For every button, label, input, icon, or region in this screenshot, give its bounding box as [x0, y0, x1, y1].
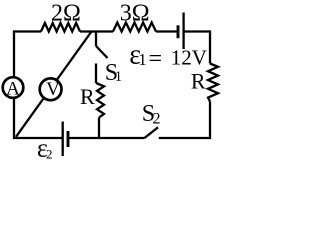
wire bottom-right segment: [159, 137, 210, 139]
resistor R4 middle R: [96, 83, 104, 118]
wire to battery E1: [156, 30, 178, 32]
svg-text:=: =: [149, 46, 163, 72]
wire bottom-left segment: [13, 137, 63, 139]
svg-text:12V: 12V: [171, 46, 207, 70]
wire S1 lower contact: [95, 64, 97, 84]
battery E2 short plate: [67, 131, 70, 147]
svg-text:1: 1: [138, 50, 147, 69]
wire battery E1 to top-right corner: [184, 30, 210, 32]
switch S1 blade: [96, 46, 108, 58]
battery E1 long plate: [182, 13, 184, 50]
wire voltmeter diagonal: [16, 32, 92, 137]
switch S1 top stub: [95, 32, 97, 47]
battery E1 short plate: [177, 25, 180, 38]
ammeter A circle: [3, 77, 24, 98]
wire middle branch lower: [98, 118, 100, 139]
wire right vertical upper: [209, 30, 211, 63]
svg-text:2: 2: [153, 111, 161, 128]
svg-text:3Ω: 3Ω: [120, 0, 150, 26]
voltmeter V circle: [40, 78, 62, 100]
svg-text:1: 1: [115, 69, 123, 85]
resistor R2 3ohm: [113, 23, 156, 32]
wire right vertical lower: [209, 102, 211, 140]
resistor R3 right R: [208, 64, 218, 102]
wire top-left segment: [13, 30, 41, 32]
svg-text:A: A: [6, 78, 20, 99]
switch S2 blade: [145, 127, 159, 138]
svg-text:R: R: [191, 69, 206, 94]
wire left vertical: [13, 32, 15, 139]
resistor R1 2ohm: [41, 23, 80, 32]
svg-text:2Ω: 2Ω: [51, 0, 81, 26]
svg-text:R: R: [80, 84, 95, 109]
svg-text:V: V: [46, 79, 60, 100]
wire top-middle segment: [80, 30, 113, 32]
battery E2 long plate: [62, 122, 64, 157]
wire bottom-middle segment: [69, 137, 145, 139]
svg-text:2: 2: [46, 146, 53, 161]
